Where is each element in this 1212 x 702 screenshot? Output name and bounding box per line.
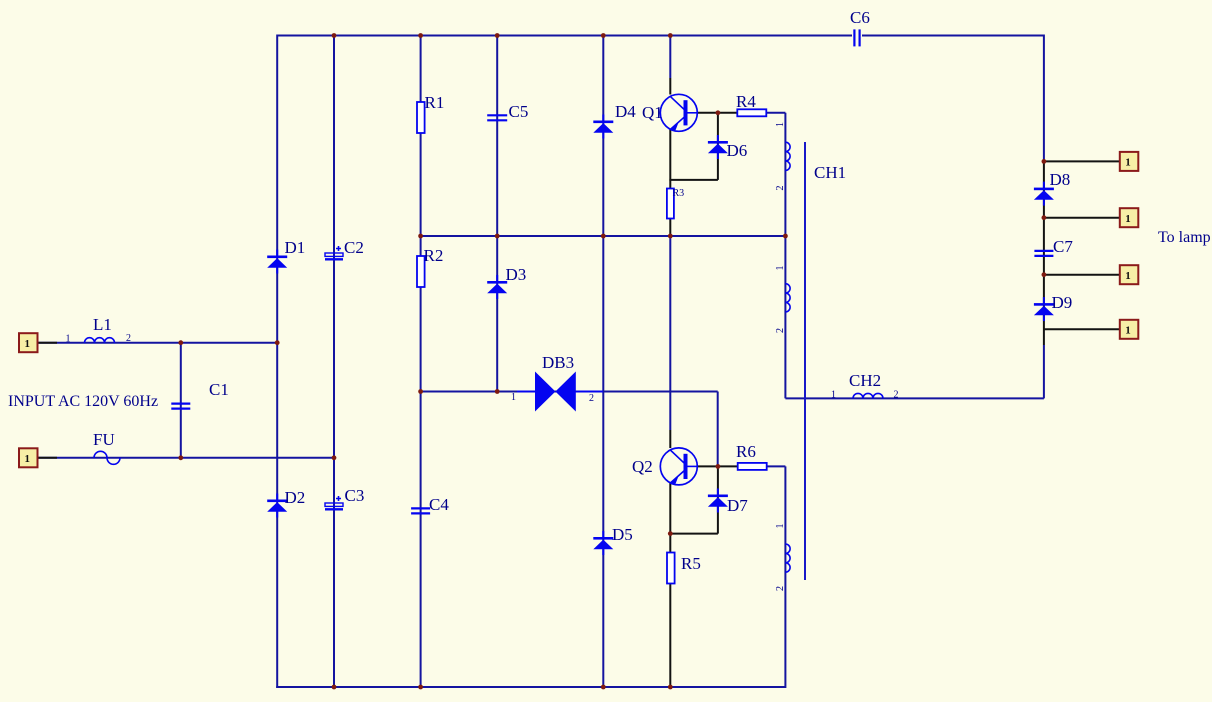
resistor R5 bbox=[667, 553, 675, 584]
diode D8 bbox=[1034, 182, 1054, 206]
svg-text:2: 2 bbox=[894, 390, 899, 401]
wire DB3 row bbox=[421, 391, 718, 393]
transformer CH1 core bbox=[804, 142, 806, 580]
wire CH1 winding 1 vertical bbox=[784, 113, 786, 236]
diode D9 bbox=[1034, 297, 1054, 321]
svg-text:2: 2 bbox=[775, 586, 786, 591]
svg-text:D7: D7 bbox=[727, 496, 748, 515]
diode D3 bbox=[487, 275, 507, 299]
junction dots FU node bbox=[178, 455, 183, 460]
wire Q2 base to R6 junction bbox=[697, 465, 738, 467]
svg-text:1: 1 bbox=[775, 266, 786, 271]
winding coil CH1 winding 3 bbox=[785, 544, 790, 572]
wire terminal row 2 (right) bbox=[1044, 217, 1120, 219]
junction dots right rail bbox=[1042, 159, 1047, 164]
capacitor C2 (polarized) bbox=[325, 246, 343, 259]
wire mid bus bbox=[421, 235, 786, 237]
wire FU row bbox=[38, 457, 335, 459]
pin lead Q2 emitter / resistor R5 leads bbox=[669, 482, 671, 686]
svg-text:CH1: CH1 bbox=[814, 163, 846, 182]
resistor R3 bbox=[667, 189, 674, 219]
capacitor C7 bbox=[1034, 251, 1053, 256]
junction dots L1 node bbox=[178, 340, 183, 345]
wire Q1/R3/Q2/R5 branch vertical bbox=[669, 35, 671, 79]
diode D4 bbox=[593, 115, 613, 139]
svg-text:1: 1 bbox=[775, 122, 786, 127]
fuse FU bbox=[94, 451, 120, 464]
svg-text:1: 1 bbox=[66, 334, 71, 345]
transistor Q1 bbox=[660, 94, 697, 131]
inductor coil L1 bbox=[85, 338, 115, 343]
svg-text:C6: C6 bbox=[850, 8, 870, 27]
svg-text:C1: C1 bbox=[209, 380, 229, 399]
junction dots top bus bbox=[332, 33, 337, 38]
winding coil CH1 winding 2 bbox=[785, 284, 790, 312]
junction dot Q2 base node bbox=[716, 464, 721, 469]
winding coil CH1 winding 1 bbox=[785, 142, 790, 170]
terminal lamp 4 bbox=[1120, 320, 1139, 339]
wire Q1 base to R4 junction bbox=[697, 112, 737, 114]
wire CH2 output horizontal bbox=[785, 397, 1044, 399]
svg-text:C2: C2 bbox=[344, 238, 364, 257]
svg-text:DB3: DB3 bbox=[542, 353, 574, 372]
wire terminal row 3 (right) bbox=[1044, 274, 1120, 276]
svg-text:Q1: Q1 bbox=[642, 103, 663, 122]
svg-text:1: 1 bbox=[1125, 157, 1131, 169]
pin lead input terminal 1 bbox=[38, 342, 58, 344]
wire L1 row bbox=[38, 342, 278, 344]
pin lead Q2 collector bbox=[669, 430, 671, 448]
svg-text:2: 2 bbox=[775, 186, 786, 191]
svg-text:1: 1 bbox=[24, 338, 30, 350]
wire mid bus to Q2 collector bbox=[669, 236, 671, 430]
svg-text:INPUT AC 120V 60Hz: INPUT AC 120V 60Hz bbox=[8, 393, 158, 410]
transistor Q2 bbox=[660, 448, 697, 485]
wire D7 branch vertical bbox=[717, 466, 719, 533]
pin lead Q1 collector bbox=[669, 78, 671, 95]
diode D7 bbox=[708, 489, 728, 513]
pin leads D8/C7/D9 chain bbox=[1043, 161, 1045, 345]
svg-text:1: 1 bbox=[1125, 324, 1131, 336]
svg-text:2: 2 bbox=[126, 333, 131, 344]
wire C1 branch vertical bbox=[180, 343, 182, 458]
diode D1 bbox=[267, 250, 287, 274]
svg-text:1: 1 bbox=[831, 390, 836, 401]
svg-text:R2: R2 bbox=[424, 246, 444, 265]
capacitor C1 bbox=[171, 404, 190, 409]
wire D4/D5 branch vertical bbox=[602, 35, 604, 689]
svg-text:R3: R3 bbox=[673, 188, 685, 199]
svg-text:D2: D2 bbox=[285, 488, 306, 507]
svg-text:D4: D4 bbox=[615, 102, 636, 121]
capacitor C6 bbox=[854, 29, 859, 46]
wire D6 return to Q1 emitter bbox=[669, 179, 718, 181]
wire right vertical rail upper bbox=[1043, 35, 1045, 163]
svg-text:R4: R4 bbox=[736, 92, 756, 111]
diac DB3 bbox=[517, 372, 603, 412]
junction dots bottom bus bbox=[332, 685, 337, 690]
junction dot Q2 emitter node bbox=[668, 531, 673, 536]
wire right vertical rail lower bbox=[1043, 345, 1045, 398]
junction dot Q1 base node bbox=[716, 110, 721, 115]
svg-text:1: 1 bbox=[1125, 270, 1131, 282]
wire R1/R2/C4 branch vertical bbox=[420, 35, 422, 689]
terminal lamp 1 bbox=[1120, 152, 1139, 171]
svg-text:C3: C3 bbox=[345, 486, 365, 505]
diode D5 bbox=[593, 531, 613, 555]
svg-text:To lamp: To lamp bbox=[1158, 229, 1211, 246]
svg-text:CH2: CH2 bbox=[849, 371, 881, 390]
diode D6 bbox=[708, 135, 728, 159]
svg-text:R6: R6 bbox=[736, 442, 756, 461]
junction dots DB3 row bbox=[418, 389, 423, 394]
wire CH1 winding 2 vertical bbox=[784, 236, 786, 398]
capacitor C5 bbox=[487, 115, 507, 120]
capacitor C3 (polarized) bbox=[325, 496, 343, 509]
svg-text:C4: C4 bbox=[429, 495, 449, 514]
junction dots mid bus bbox=[418, 234, 423, 239]
resistor R1 bbox=[417, 102, 425, 133]
resistor R4 bbox=[737, 109, 766, 116]
pin lead input terminal 2 bbox=[38, 457, 58, 459]
wire CH1 winding 3 vertical bbox=[784, 466, 786, 688]
terminal input 2 bbox=[19, 448, 38, 467]
wire top bus right segment (C6 to right corner) bbox=[862, 35, 1044, 37]
terminal input 1 bbox=[19, 333, 38, 352]
svg-text:D3: D3 bbox=[506, 265, 527, 284]
svg-text:Q2: Q2 bbox=[632, 457, 653, 476]
svg-text:D1: D1 bbox=[285, 238, 306, 257]
svg-text:C5: C5 bbox=[509, 102, 529, 121]
svg-text:D8: D8 bbox=[1050, 170, 1071, 189]
wire terminal row 1 (right) bbox=[1044, 160, 1120, 162]
svg-text:1: 1 bbox=[511, 392, 516, 403]
resistor R2 bbox=[417, 256, 425, 287]
wire C2/C3 branch vertical bbox=[333, 35, 335, 689]
svg-text:1: 1 bbox=[775, 524, 786, 529]
svg-text:D6: D6 bbox=[727, 141, 748, 160]
wire terminal row 4 (right) bbox=[1044, 328, 1120, 330]
pin lead Q1 emitter / resistor R3 leads bbox=[669, 129, 671, 236]
svg-text:L1: L1 bbox=[93, 315, 112, 334]
wire bottom bus bbox=[276, 686, 785, 688]
svg-text:D5: D5 bbox=[612, 525, 633, 544]
diode D2 bbox=[267, 494, 287, 518]
terminal lamp 3 bbox=[1120, 265, 1139, 284]
svg-text:FU: FU bbox=[93, 430, 115, 449]
svg-text:D9: D9 bbox=[1052, 293, 1073, 312]
wire left rail D1/D2 branch vertical bbox=[276, 35, 278, 689]
resistor R6 bbox=[738, 463, 767, 470]
inductor coil CH2 bbox=[853, 393, 883, 398]
svg-text:R5: R5 bbox=[681, 554, 701, 573]
wire top bus left segment (to C6) bbox=[277, 35, 852, 37]
svg-text:C7: C7 bbox=[1053, 237, 1073, 256]
svg-text:R1: R1 bbox=[425, 93, 445, 112]
svg-text:1: 1 bbox=[1125, 213, 1131, 225]
wire R4 to CH1 winding 1 bbox=[766, 112, 785, 114]
wire D7 return to Q2 emitter bbox=[669, 533, 718, 535]
svg-text:2: 2 bbox=[775, 328, 786, 333]
wire C5/D3 branch vertical bbox=[496, 35, 498, 392]
capacitor C4 bbox=[411, 508, 430, 513]
wire D6 branch vertical bbox=[717, 113, 719, 180]
terminal lamp 2 bbox=[1120, 208, 1139, 227]
wire R6 to CH1 winding 3 bbox=[767, 465, 786, 467]
svg-text:2: 2 bbox=[589, 393, 594, 404]
svg-text:1: 1 bbox=[24, 453, 30, 465]
wire DB3 to Q2 base vertical bbox=[717, 392, 719, 467]
